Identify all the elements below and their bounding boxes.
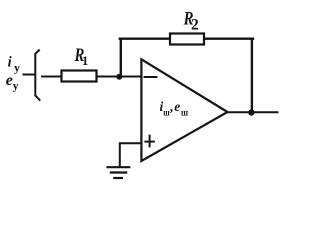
svg-text:у: у xyxy=(13,81,19,93)
svg-text:ш: ш xyxy=(163,106,170,117)
svg-text:1: 1 xyxy=(82,54,88,68)
svg-text:e: e xyxy=(174,99,180,114)
svg-text:ш: ш xyxy=(181,107,188,118)
svg-text:,: , xyxy=(169,99,173,114)
svg-text:i: i xyxy=(8,54,12,70)
svg-text:у: у xyxy=(14,60,20,74)
svg-text:2: 2 xyxy=(191,16,199,33)
